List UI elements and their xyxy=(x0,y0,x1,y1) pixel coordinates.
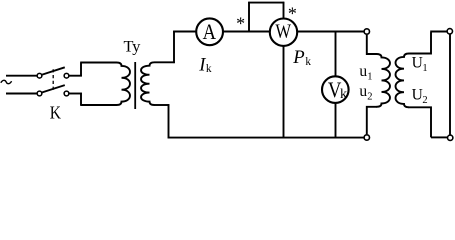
svg-text:U: U xyxy=(412,54,423,71)
wire wattmeter to terminal xyxy=(297,31,364,33)
wire pole2 to jog xyxy=(69,93,81,95)
voltmeter Vk xyxy=(322,76,349,103)
wire voltmeter branch upper xyxy=(335,32,337,77)
wire secondary top stub to corner xyxy=(409,32,432,53)
switch K mechanical link (dashed) xyxy=(52,69,54,91)
wire top supply lead xyxy=(6,75,37,77)
AC source symbol ~ xyxy=(1,80,12,83)
wire bottom supply lead xyxy=(6,93,37,95)
svg-text:k: k xyxy=(206,63,212,75)
wire Ty bottom rail xyxy=(80,104,116,106)
switch K pole 1 right contact xyxy=(64,73,69,78)
svg-text:W: W xyxy=(275,21,291,43)
wire tested winding bottom to terminal xyxy=(367,107,377,135)
wire Ty secondary bottom stub xyxy=(155,104,170,106)
wire pole1 to jog xyxy=(69,75,81,77)
tested transformer secondary winding xyxy=(396,54,409,108)
wire corner to terminal U1 xyxy=(430,31,446,33)
terminal u1 top xyxy=(364,29,369,34)
wattmeter W xyxy=(270,19,297,46)
terminal U2 xyxy=(448,135,453,140)
wire wattmeter voltage branch to bottom rail xyxy=(283,46,285,138)
wire bottom rail xyxy=(168,137,364,139)
svg-text:A: A xyxy=(203,19,216,44)
wire drop to bottom rail xyxy=(168,104,170,138)
svg-text:K: K xyxy=(50,103,62,123)
wire terminal to tested winding top xyxy=(367,35,377,54)
svg-text:2: 2 xyxy=(367,91,372,102)
svg-text:*: * xyxy=(236,13,245,33)
wire ammeter to wattmeter xyxy=(223,31,270,33)
wire jog up xyxy=(80,63,82,77)
wattmeter current-coil loop right drop xyxy=(283,2,285,19)
svg-text:1: 1 xyxy=(367,71,372,82)
svg-text:U: U xyxy=(412,86,423,103)
tested transformer primary winding xyxy=(377,54,390,107)
wire top to ammeter xyxy=(173,31,196,33)
svg-text:u: u xyxy=(359,63,367,80)
switch K pole 2 right contact xyxy=(64,91,69,96)
svg-text:1: 1 xyxy=(422,63,427,74)
svg-text:2: 2 xyxy=(422,95,427,106)
wattmeter current-coil loop top xyxy=(248,2,284,4)
transformer Ty core xyxy=(134,62,136,109)
wire terminal U2 to corner xyxy=(431,136,447,138)
svg-text:k: k xyxy=(340,87,347,102)
svg-text:k: k xyxy=(305,56,311,68)
short-circuit wire xyxy=(449,35,451,135)
transformer Ty primary winding xyxy=(117,63,130,106)
switch K pole 1 left contact xyxy=(37,73,42,78)
terminal U1 xyxy=(447,29,452,34)
wire riser to ammeter level xyxy=(173,31,175,63)
terminal u2 bottom xyxy=(364,135,369,140)
wire corner to secondary bottom stub xyxy=(409,107,432,137)
transformer Ty secondary winding xyxy=(141,62,154,105)
switch K pole 2 blade xyxy=(42,85,65,92)
svg-text:u: u xyxy=(359,83,367,100)
wire Ty secondary top stub xyxy=(155,61,175,63)
wattmeter current-coil loop left riser xyxy=(248,2,250,33)
switch K pole 1 blade xyxy=(42,67,65,74)
svg-text:P: P xyxy=(292,47,304,68)
switch K pole 2 left contact xyxy=(37,91,42,96)
svg-text:Ty: Ty xyxy=(124,37,142,56)
ammeter A xyxy=(196,18,223,45)
wire jog down xyxy=(80,93,82,105)
wire Ty top rail xyxy=(80,62,116,64)
wire voltmeter branch lower xyxy=(335,103,337,138)
